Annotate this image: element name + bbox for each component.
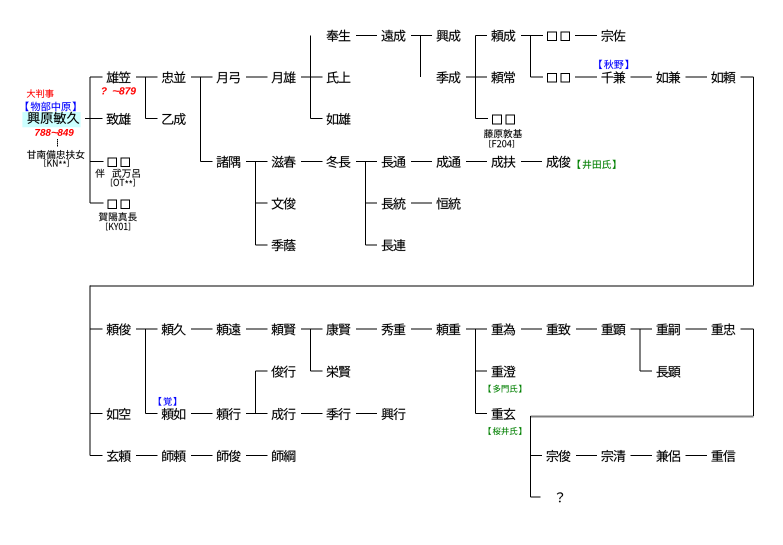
wire tee-文俊	[256, 203, 268, 204]
name 兼侶	[656, 450, 680, 462]
label 甘南備忠扶女	[27, 150, 84, 159]
name 頼行	[216, 408, 240, 420]
name 師綱	[272, 450, 295, 462]
name 季蔭	[271, 239, 295, 251]
name 頼常	[491, 71, 515, 83]
wire bracket-忠並kids	[200, 77, 201, 161]
wire corner-重玄	[475, 413, 487, 414]
name 遠成	[381, 30, 405, 42]
name 文俊	[272, 198, 296, 210]
name 玄頼	[107, 450, 131, 462]
wire corner-□□fujiwara	[475, 118, 488, 119]
highlight 興原敏久	[22, 112, 80, 127]
name 宗佐	[601, 30, 625, 42]
label 賀陽真長	[99, 212, 137, 221]
name 奉生	[327, 30, 351, 42]
label 覚	[159, 397, 176, 406]
label 多門氏	[489, 385, 522, 393]
name 師俊	[217, 450, 241, 462]
wire trunk	[90, 77, 91, 203]
wire 忠並-月弓	[191, 77, 212, 78]
name 氏上	[327, 71, 351, 83]
name 師頼	[162, 450, 186, 462]
name 頼如	[162, 408, 186, 420]
name 千兼	[601, 71, 625, 83]
wire bracket-雄笠kids	[145, 77, 146, 119]
wire □□-宗佐	[575, 35, 597, 36]
name 致雄	[107, 113, 131, 125]
wire corner-？	[530, 497, 540, 498]
name 如頼	[711, 71, 735, 83]
name 成行	[272, 408, 296, 420]
wire trunk-雄笠	[90, 77, 102, 78]
wire left-bracket	[90, 286, 91, 456]
unknown-square c8r1 (1)	[548, 74, 557, 83]
label 大判事	[27, 89, 54, 97]
wire 如頼-corner	[741, 77, 754, 78]
name 重忠	[711, 323, 735, 335]
wire 兼侶-重信	[686, 455, 707, 456]
wire bracket-月雄kids	[310, 35, 311, 118]
wire 重嗣-重忠	[686, 329, 707, 330]
wire corner-頼成	[475, 35, 487, 36]
wire 季成-頼常	[466, 77, 487, 78]
wire corner-季蔭	[256, 244, 268, 245]
name 重顕	[601, 323, 625, 335]
name 成通	[436, 156, 460, 168]
wire right-wrap-top	[753, 77, 754, 286]
label 桜井氏	[489, 427, 522, 435]
name 頼遠	[216, 323, 240, 335]
name 成扶	[491, 156, 515, 168]
label 物部中原	[26, 102, 76, 112]
name 重為	[492, 323, 515, 335]
wire 重致-重顕	[576, 329, 597, 330]
label 伴 武万呂	[95, 169, 139, 178]
wire 頼賢-康賢	[301, 329, 322, 330]
wire bracket-冬長kids	[365, 161, 366, 244]
name 秀重	[381, 323, 405, 335]
wire corner-諸隅	[201, 161, 213, 162]
name 長連	[382, 239, 406, 251]
name 重澄	[492, 366, 516, 378]
name 宗清	[601, 450, 625, 462]
name 月弓	[216, 72, 239, 83]
name 長通	[382, 156, 406, 168]
wire 師頼-師俊	[191, 455, 212, 456]
wire corner-長連	[365, 244, 377, 245]
label KN**	[44, 159, 68, 167]
wire 興原敏久-致雄	[85, 118, 103, 119]
wire wrap-top	[90, 285, 753, 287]
wire bracket-頼成kids	[530, 35, 531, 77]
unknown-square fujiwara (2)	[506, 115, 515, 124]
wire □□-千兼	[575, 77, 597, 78]
wire 滋春-冬長	[301, 161, 322, 162]
label OT**	[111, 179, 135, 187]
wire 冬長-長通	[356, 161, 377, 162]
wire corner-長統	[365, 203, 377, 204]
unknown-square ban (2)	[121, 158, 130, 167]
name 恒統	[436, 198, 460, 210]
name 季行	[326, 408, 350, 420]
wire bracket-重忠kids	[530, 416, 531, 497]
name 重信	[711, 450, 735, 462]
wire 重顕-重嗣	[631, 329, 652, 330]
wire 成扶-成俊	[521, 161, 542, 162]
wire corner-長顕	[640, 371, 652, 372]
wire left-如空	[90, 413, 102, 414]
label KY01	[106, 223, 130, 231]
name 興行	[382, 408, 406, 420]
name 栄賢	[326, 366, 350, 378]
wire 成通-成扶	[466, 161, 487, 162]
name 諸隅	[217, 156, 241, 168]
wire bracket-季成kids	[475, 35, 476, 118]
name 頼重	[436, 323, 460, 335]
name 月雄	[271, 71, 295, 83]
wire corner-乙成	[146, 118, 158, 119]
name 成俊	[546, 156, 570, 168]
name 頼俊	[107, 323, 131, 335]
wire 季行-興行	[356, 413, 377, 414]
name 俊行	[271, 366, 295, 378]
wire right-wrap-bottom	[753, 329, 754, 416]
name 頼賢	[271, 323, 295, 335]
name 忠並	[162, 71, 186, 83]
name 如兼	[656, 71, 680, 83]
wire 重為-重致	[521, 329, 542, 330]
wire bracket-頼賢kids	[310, 329, 311, 371]
name 重玄	[492, 408, 516, 420]
wire corner-栄賢	[311, 371, 323, 372]
wire 玄頼-師頼	[136, 455, 157, 456]
name 如雄	[327, 113, 351, 125]
name 重致	[547, 323, 571, 335]
label ? ~879	[102, 87, 136, 94]
name 興原敏久	[28, 112, 80, 124]
wire 長通-成通	[411, 161, 432, 162]
name 季成	[436, 71, 460, 83]
wire 雄笠-忠並	[136, 77, 157, 78]
wire 頼行-成行	[246, 413, 267, 414]
wire 頼重-重為	[466, 329, 487, 330]
name 如空	[107, 408, 131, 420]
unknown-square kaya (1)	[108, 200, 117, 209]
wire corner-俊行	[256, 371, 268, 372]
wire 秀重-頼重	[411, 329, 432, 330]
wire tee-重澄	[475, 371, 487, 372]
wire left-頼俊	[90, 329, 102, 330]
name 頼久	[162, 323, 186, 335]
label F204	[489, 140, 514, 148]
wire wrap-bottom	[530, 415, 753, 417]
label 井田氏	[578, 160, 616, 169]
wire 宗清-兼侶	[631, 455, 652, 456]
wire corner-如雄	[311, 118, 323, 119]
unknown-square ban (1)	[108, 158, 117, 167]
unknown-square c8r0 (2)	[561, 32, 570, 41]
wire bracket-頼重kids	[475, 329, 476, 414]
wire 頼久-頼遠	[191, 329, 212, 330]
wire 月雄-氏上	[301, 77, 322, 78]
label 藤原敦基	[484, 129, 522, 138]
label 秋野	[599, 60, 628, 69]
name 興成	[437, 30, 461, 42]
unknown-square kaya (2)	[121, 200, 130, 209]
unknown-square c8r0 (1)	[548, 32, 557, 41]
wire 成行-季行	[301, 413, 322, 414]
wire bracket-頼俊kids	[145, 329, 146, 414]
name 冬長	[326, 156, 350, 168]
unknown-square fujiwara (1)	[493, 115, 502, 124]
name 雄笠	[106, 71, 130, 83]
wire 長統-恒統	[411, 203, 432, 204]
wire 奉生-遠成	[356, 35, 377, 36]
wire bracket-遠成kids	[420, 35, 421, 77]
name ？	[557, 492, 563, 502]
wire 如兼-如頼	[686, 77, 707, 78]
wire 頼俊-頼久	[136, 329, 157, 330]
name 重嗣	[656, 323, 679, 335]
wire tee-宗俊	[530, 455, 542, 456]
wire 康賢-秀重	[356, 329, 377, 330]
wire corner-玄頼	[90, 455, 102, 456]
wire 師俊-師綱	[246, 455, 267, 456]
name 乙成	[162, 113, 185, 125]
wire trunk-□□kaya	[90, 203, 103, 204]
wire bracket-頼行kids	[255, 371, 256, 413]
name 康賢	[326, 323, 350, 335]
name 長統	[382, 198, 406, 210]
wire 重忠-corner	[741, 329, 754, 330]
wire 頼遠-頼賢	[246, 329, 267, 330]
wire trunk-□□ban	[90, 161, 103, 162]
wire marriage-dotted	[57, 139, 58, 140]
wire 遠成-興成	[411, 35, 432, 36]
wire corner-頼如	[146, 413, 158, 414]
unknown-square c8r1 (2)	[561, 74, 570, 83]
wire 頼如-頼行	[191, 413, 212, 414]
name 滋春	[272, 156, 296, 168]
name 長顕	[656, 366, 680, 377]
wire 宗俊-宗清	[576, 455, 597, 456]
name 頼成	[491, 30, 515, 42]
wire bracket-諸隅kids	[255, 161, 256, 244]
wire corner-□□	[530, 77, 543, 78]
wire 頼成-□□	[521, 35, 543, 36]
wire 諸隅-滋春	[246, 161, 267, 162]
name 宗俊	[546, 450, 570, 462]
wire 月弓-月雄	[246, 77, 267, 78]
wire bracket-重顕kids	[640, 329, 641, 371]
label 788~849	[35, 129, 74, 136]
wire 千兼-如兼	[631, 77, 652, 78]
